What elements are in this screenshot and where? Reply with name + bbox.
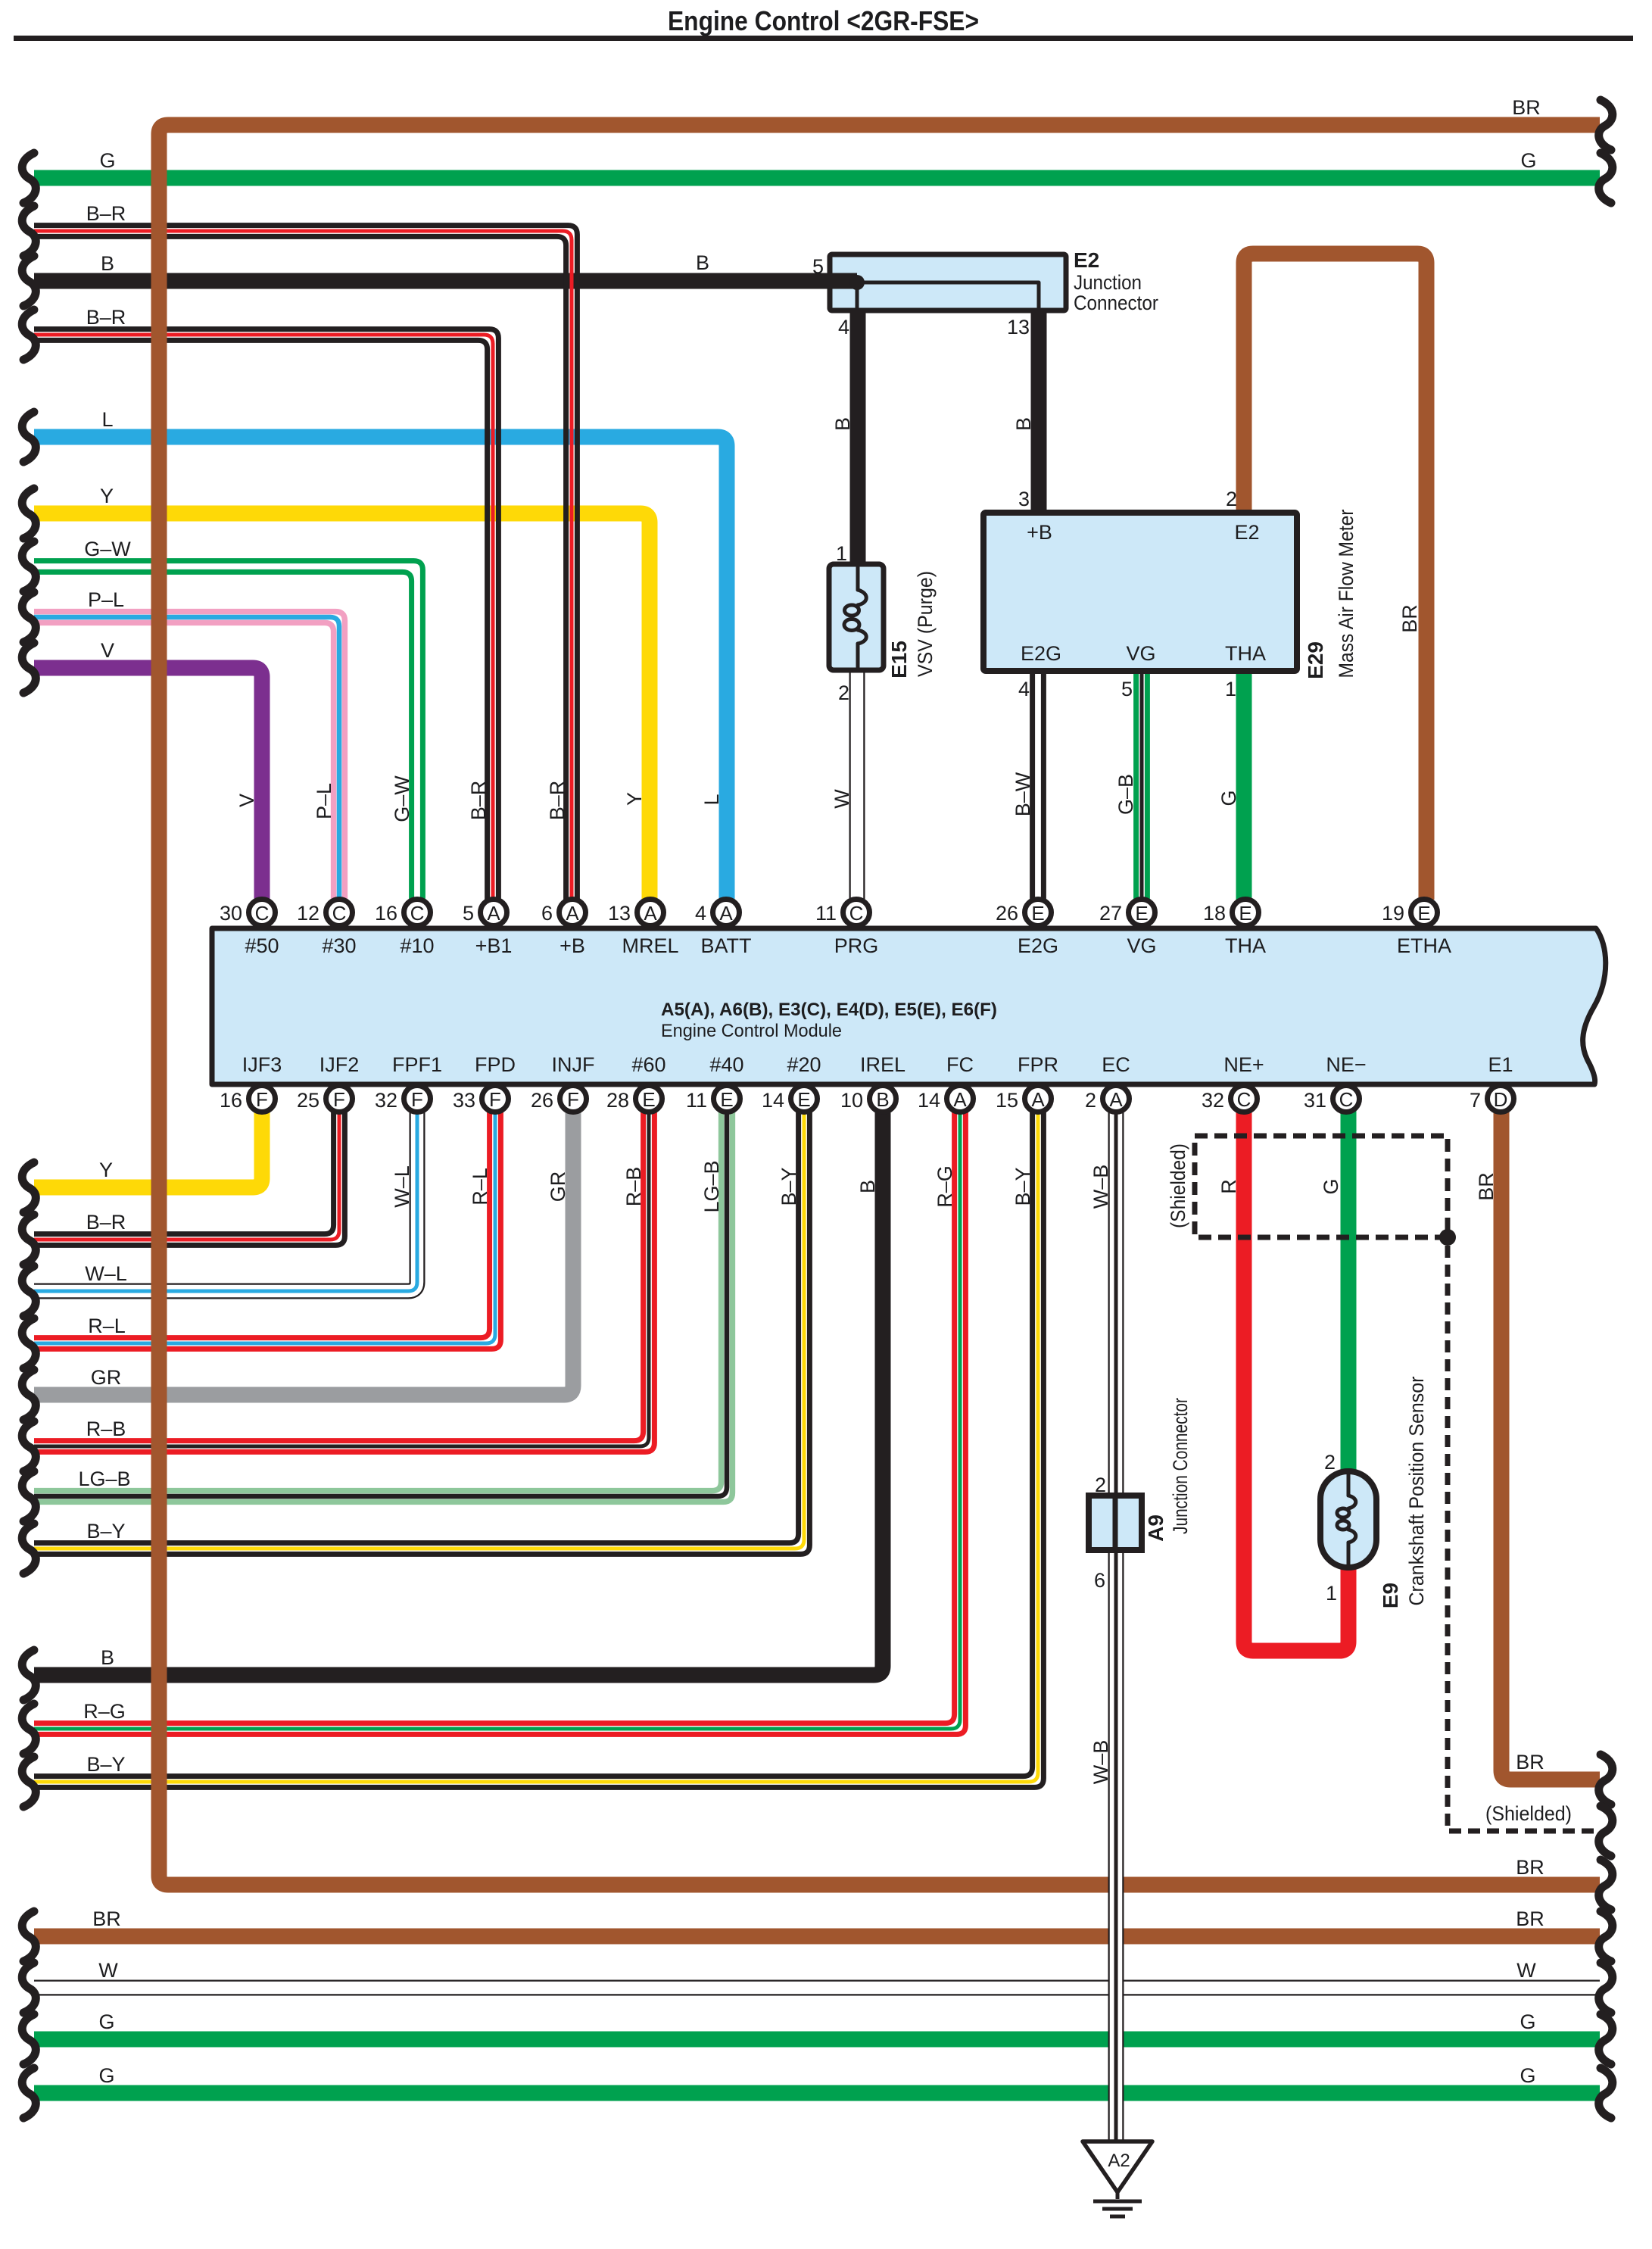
svg-text:L: L [700, 794, 723, 805]
svg-text:+B: +B [559, 934, 585, 957]
svg-text:5: 5 [463, 902, 474, 925]
ECM bottom pin 2(A) EC [1085, 1053, 1130, 1112]
svg-text:W: W [1516, 1959, 1536, 1982]
svg-text:11: 11 [686, 1089, 707, 1112]
svg-text:W–B: W–B [1089, 1165, 1112, 1209]
svg-text:31: 31 [1304, 1089, 1326, 1112]
ECM top pin 13(A) MREL [608, 900, 679, 958]
svg-text:A: A [487, 902, 500, 925]
svg-text:#30: #30 [322, 934, 356, 957]
svg-text:13: 13 [1007, 316, 1030, 338]
svg-text:R–L: R–L [469, 1168, 491, 1206]
svg-text:BR: BR [1516, 1907, 1544, 1930]
svg-text:B–Y: B–Y [778, 1167, 800, 1206]
rotated wire labels below ECM [391, 1160, 1498, 1784]
label B on wire to E2 [696, 251, 709, 274]
svg-text:5: 5 [812, 255, 824, 278]
svg-text:A9: A9 [1144, 1514, 1167, 1542]
wire B (to E2 junction connector pin 5) [34, 273, 833, 289]
junction connector E2 (box) [830, 254, 1066, 310]
svg-text:Engine Control Module: Engine Control Module [661, 1021, 842, 1041]
svg-text:V: V [101, 639, 114, 662]
svg-text:C: C [1339, 1088, 1354, 1111]
svg-text:E: E [1031, 902, 1044, 925]
MAF terminal names [1021, 521, 1266, 665]
ECM bottom pin 26(F) INJF [531, 1053, 595, 1112]
svg-text:1: 1 [1225, 678, 1236, 700]
ECM name text [661, 1000, 997, 1041]
title rule [14, 36, 1633, 41]
svg-text:B–R: B–R [86, 202, 126, 225]
wire G (MAF THA to ECM THA) [1236, 668, 1252, 900]
wire GR (to ECM INJF) [34, 1109, 573, 1395]
wire L (to ECM BATT) [34, 437, 727, 900]
ECM bottom pin 7(D) E1 [1470, 1053, 1514, 1112]
svg-text:R–B: R–B [86, 1418, 126, 1440]
svg-text:#10: #10 [400, 934, 434, 957]
svg-text:C: C [1237, 1088, 1251, 1111]
svg-text:2: 2 [838, 682, 849, 704]
ECM bottom pin 10(B) IREL [840, 1053, 905, 1112]
svg-text:Junction Connector: Junction Connector [1169, 1398, 1192, 1534]
svg-text:6: 6 [1094, 1569, 1105, 1592]
svg-text:B–R: B–R [467, 781, 490, 821]
ECM bottom pin 32(C) NE+ [1202, 1053, 1264, 1112]
E9 labels [1379, 1376, 1428, 1608]
svg-text:B: B [101, 252, 114, 275]
E15 labels [887, 571, 937, 678]
ECM bottom pin 11(E) #40 [686, 1053, 744, 1112]
svg-text:R–B: R–B [622, 1167, 645, 1207]
wire BR main (top, left vertical, bottom run to right) [159, 125, 1600, 1885]
crankshaft position sensor E9 (body) [1320, 1471, 1376, 1567]
wire B-R (to ECM IJF2) [34, 1109, 344, 1245]
svg-text:VG: VG [1126, 642, 1155, 665]
svg-text:G: G [1520, 2010, 1535, 2033]
ECM bottom pin 16(F) IJF3 [220, 1053, 282, 1112]
svg-text:BR: BR [1512, 96, 1541, 119]
ECM top pin 27(E) VG [1099, 900, 1157, 958]
svg-text:E: E [1239, 902, 1251, 925]
svg-text:C: C [332, 902, 347, 925]
svg-text:B–R: B–R [546, 781, 569, 821]
svg-text:A2: A2 [1108, 2151, 1130, 2171]
svg-text:B–W: B–W [1011, 772, 1034, 816]
svg-text:Engine Control <2GR-FSE>: Engine Control <2GR-FSE> [668, 5, 979, 36]
svg-text:VG: VG [1127, 934, 1156, 957]
svg-text:IJF3: IJF3 [242, 1053, 282, 1076]
svg-text:FPD: FPD [475, 1053, 516, 1076]
ECM bottom pin 14(A) FC [918, 1053, 974, 1112]
svg-text:B–Y: B–Y [86, 1753, 125, 1776]
svg-text:BR: BR [1516, 1856, 1544, 1879]
svg-text:G: G [1520, 2064, 1535, 2087]
A9 junction connector labels [1094, 1398, 1192, 1592]
svg-text:F: F [567, 1088, 579, 1111]
ECM top pin 16(C) #10 [375, 900, 435, 958]
svg-text:R–L: R–L [88, 1315, 126, 1337]
svg-text:A: A [719, 902, 733, 925]
svg-text:14: 14 [918, 1089, 940, 1112]
svg-text:33: 33 [453, 1089, 475, 1112]
svg-text:16: 16 [220, 1089, 242, 1112]
wire Y (to ECM MREL) [34, 513, 650, 900]
wire G (bottom full width 2) [34, 2085, 1600, 2101]
svg-text:ETHA: ETHA [1397, 934, 1451, 957]
svg-text:Y: Y [623, 792, 646, 806]
svg-text:P–L: P–L [88, 588, 124, 611]
svg-text:28: 28 [606, 1089, 629, 1112]
left wire labels [78, 149, 131, 2087]
ECM top pin 19(E) ETHA [1382, 900, 1451, 958]
svg-text:F: F [333, 1088, 345, 1111]
svg-text:B–Y: B–Y [86, 1520, 125, 1542]
ECM bottom pin 32(F) FPF1 [375, 1053, 442, 1112]
svg-text:W: W [98, 1959, 118, 1982]
svg-text:R–G: R–G [934, 1165, 956, 1208]
shielded labels [1167, 1143, 1572, 1825]
svg-text:E: E [1135, 902, 1148, 925]
svg-text:C: C [849, 902, 864, 925]
svg-text:B–Y: B–Y [1011, 1167, 1034, 1206]
mass air flow meter E29 box [983, 513, 1297, 671]
svg-text:V: V [235, 794, 258, 807]
svg-text:FPF1: FPF1 [392, 1053, 442, 1076]
svg-text:IJF2: IJF2 [319, 1053, 360, 1076]
svg-text:A: A [953, 1088, 967, 1111]
svg-text:VSV (Purge): VSV (Purge) [914, 571, 937, 677]
wire B-Y (to ECM #20) [34, 1109, 809, 1554]
svg-text:+B: +B [1027, 521, 1052, 544]
ECM bottom pin 25(F) IJF2 [297, 1053, 359, 1112]
svg-text:MREL: MREL [622, 934, 678, 957]
svg-text:E15: E15 [887, 641, 911, 678]
svg-text:A5(A), A6(B), E3(C), E4(D), E5: A5(A), A6(B), E3(C), E4(D), E5(E), E6(F) [661, 1000, 997, 1020]
svg-text:BR: BR [1475, 1172, 1498, 1201]
ECM bottom pin 31(C) NE− [1304, 1053, 1367, 1112]
E9 coil symbol [1337, 1474, 1356, 1564]
svg-text:PRG: PRG [834, 934, 879, 957]
svg-text:FPR: FPR [1018, 1053, 1058, 1076]
svg-text:2: 2 [1324, 1451, 1336, 1474]
wire BR (ECM E1 to right) [1501, 1109, 1600, 1780]
wire G-W (to ECM #10) [34, 561, 422, 900]
wire G (top full width) [34, 170, 1600, 186]
wire B-R (to ECM +B1) [34, 329, 498, 900]
rotated wire labels above ECM [235, 417, 1421, 822]
svg-text:4: 4 [838, 316, 849, 338]
svg-text:P–L: P–L [313, 783, 335, 819]
svg-text:E2G: E2G [1021, 642, 1061, 665]
svg-text:L: L [101, 408, 113, 431]
E29 labels [1304, 509, 1357, 678]
MAF pin numbers [1018, 488, 1237, 700]
wire B-W (MAF E2G to ECM E2G) [1033, 668, 1044, 900]
VSV pin numbers [836, 542, 849, 704]
svg-text:(Shielded): (Shielded) [1167, 1143, 1189, 1228]
ECM top pin 26(E) E2G [996, 900, 1058, 958]
shielded cable dashed box (NE+/NE-) [1195, 1136, 1448, 1237]
wire G (bottom full width 1) [34, 2032, 1600, 2048]
svg-text:B: B [876, 1088, 889, 1111]
svg-text:E: E [720, 1088, 733, 1111]
svg-text:LG–B: LG–B [700, 1160, 723, 1212]
svg-text:A: A [1109, 1088, 1123, 1111]
svg-text:7: 7 [1470, 1089, 1481, 1112]
svg-text:G: G [99, 149, 115, 172]
svg-text:3: 3 [1018, 488, 1030, 510]
svg-text:13: 13 [608, 902, 631, 925]
svg-text:E29: E29 [1304, 641, 1327, 679]
svg-text:Crankshaft Position Sensor: Crankshaft Position Sensor [1405, 1376, 1428, 1605]
svg-text:B: B [856, 1180, 879, 1193]
svg-text:W–L: W–L [391, 1165, 413, 1208]
svg-text:#60: #60 [631, 1053, 665, 1076]
svg-text:BR: BR [1398, 604, 1421, 633]
svg-text:E: E [642, 1088, 655, 1111]
svg-text:E2G: E2G [1018, 934, 1058, 957]
svg-text:G: G [1520, 149, 1536, 172]
svg-text:G–W: G–W [391, 775, 413, 822]
svg-text:32: 32 [375, 1089, 397, 1112]
svg-text:27: 27 [1099, 902, 1122, 925]
wire BR (MAF E2 to ECM ETHA) [1244, 254, 1426, 900]
svg-text:2: 2 [1085, 1089, 1096, 1112]
wire break squiggles right edge [1599, 100, 1613, 2118]
svg-text:14: 14 [762, 1089, 784, 1112]
svg-text:16: 16 [375, 902, 397, 925]
svg-text:A: A [566, 902, 579, 925]
svg-text:F: F [256, 1088, 268, 1111]
wire W (bottom full width) [34, 1980, 1600, 1996]
svg-text:Y: Y [99, 1159, 113, 1181]
wire G (ECM NE- to E9 pin 2) [1341, 1109, 1357, 1474]
svg-text:B: B [696, 251, 709, 274]
svg-text:(Shielded): (Shielded) [1485, 1802, 1572, 1825]
svg-text:1: 1 [836, 542, 847, 565]
svg-text:C: C [255, 902, 270, 925]
ECM top pin 30(C) #50 [220, 900, 279, 958]
svg-text:BR: BR [92, 1907, 121, 1930]
ECM bottom pin 33(F) FPD [453, 1053, 516, 1112]
shield dashed drain wire to right edge [1448, 1246, 1600, 1831]
svg-text:F: F [489, 1088, 501, 1111]
svg-text:32: 32 [1202, 1089, 1224, 1112]
wire G-B (MAF VG to ECM VG) [1136, 668, 1148, 900]
svg-text:GR: GR [547, 1171, 569, 1202]
svg-text:Y: Y [100, 485, 114, 507]
wire W (VSV pin 2 to ECM PRG) [849, 668, 865, 900]
svg-text:+B1: +B1 [475, 934, 513, 957]
wire B (E2 pin 4 to VSV pin 1) [850, 308, 866, 568]
E2 internal bus bar [828, 275, 1039, 308]
svg-text:THA: THA [1225, 642, 1266, 665]
svg-text:G: G [1320, 1178, 1342, 1194]
wire R-B (to ECM #60) [34, 1109, 654, 1452]
svg-text:#20: #20 [787, 1053, 821, 1076]
svg-text:11: 11 [815, 902, 837, 925]
shield junction dot [1439, 1229, 1456, 1246]
svg-text:15: 15 [996, 1089, 1018, 1112]
svg-text:NE−: NE− [1326, 1053, 1366, 1076]
wire B-R (to ECM +B) [34, 226, 577, 900]
wire V (to ECM #50) [34, 668, 262, 900]
wire W-B (ECM EC through A9 to ground A2) [1108, 1109, 1124, 2143]
svg-text:5: 5 [1121, 678, 1133, 700]
svg-text:BATT: BATT [701, 934, 752, 957]
wire break squiggles left edge [22, 153, 36, 2118]
svg-text:B: B [1012, 417, 1035, 431]
svg-text:#50: #50 [245, 934, 279, 957]
svg-text:E: E [797, 1088, 810, 1111]
E15 coil symbol [844, 567, 866, 667]
ECM top pin 6(A) +B [541, 900, 586, 958]
ECM bottom pin 14(E) #20 [762, 1053, 821, 1112]
svg-text:A: A [644, 902, 657, 925]
svg-text:6: 6 [541, 902, 553, 925]
svg-text:C: C [410, 902, 425, 925]
svg-text:W: W [831, 789, 853, 809]
svg-text:EC: EC [1102, 1053, 1130, 1076]
svg-text:W–B: W–B [1089, 1740, 1112, 1785]
svg-text:NE+: NE+ [1223, 1053, 1264, 1076]
svg-text:1: 1 [1326, 1582, 1337, 1605]
svg-text:G–B: G–B [1114, 774, 1137, 815]
svg-text:GR: GR [91, 1366, 122, 1389]
wire R (ECM NE+ to E9 pin 1) [1244, 1109, 1348, 1651]
svg-text:B–R: B–R [86, 1211, 126, 1234]
svg-text:E9: E9 [1379, 1583, 1402, 1608]
svg-text:F: F [411, 1088, 423, 1111]
svg-text:Junction: Junction [1074, 271, 1142, 294]
svg-text:G: G [98, 2064, 114, 2087]
svg-text:R: R [1217, 1179, 1240, 1194]
ECM top pin 18(E) THA [1203, 900, 1266, 958]
svg-text:G: G [1217, 790, 1240, 806]
wire B (to ECM IREL) [34, 1109, 883, 1675]
wire BR (lower full width) [34, 1929, 1600, 1945]
E9 pin numbers [1324, 1451, 1337, 1605]
svg-text:19: 19 [1382, 902, 1404, 925]
right wire labels [1512, 96, 1544, 2087]
svg-text:E2: E2 [1074, 248, 1099, 272]
svg-text:B: B [831, 417, 854, 431]
wire Y (to ECM IJF3) [34, 1109, 262, 1187]
svg-text:IREL: IREL [860, 1053, 905, 1076]
ECM top pin 11(C) PRG [815, 900, 878, 958]
wire R-L (to ECM FPD) [34, 1109, 500, 1349]
svg-text:4: 4 [1018, 678, 1030, 700]
svg-text:E1: E1 [1488, 1053, 1513, 1076]
svg-text:4: 4 [695, 902, 706, 925]
engine control module box (A5/A6/E3/E4/E5/E6) [212, 928, 1606, 1084]
svg-text:E2: E2 [1234, 521, 1259, 544]
wire B-Y (to ECM FPR) [34, 1109, 1043, 1787]
ECM bottom pin 28(E) #60 [606, 1053, 666, 1112]
svg-text:B–R: B–R [86, 306, 126, 329]
ground symbol A2 [1083, 2141, 1152, 2216]
svg-text:25: 25 [297, 1089, 319, 1112]
svg-text:2: 2 [1226, 488, 1237, 510]
wire R-G (to ECM FC) [34, 1109, 965, 1734]
svg-text:A: A [1031, 1088, 1045, 1111]
svg-text:B: B [101, 1646, 114, 1669]
wire B (E2 pin 13 to MAF pin 3 +B) [1031, 308, 1047, 517]
svg-text:THA: THA [1225, 934, 1266, 957]
svg-text:G–W: G–W [84, 538, 131, 560]
svg-text:#40: #40 [709, 1053, 743, 1076]
svg-text:18: 18 [1203, 902, 1226, 925]
ECM top pin 4(A) BATT [695, 900, 752, 958]
ECM top pin 12(C) #30 [297, 900, 357, 958]
title: Engine Control <2GR-FSE> [668, 5, 979, 36]
ECM bottom pin 15(A) FPR [996, 1053, 1058, 1112]
ECM top pin 5(A) +B1 [463, 900, 512, 958]
junction connector A9 box [1089, 1496, 1142, 1550]
wire LG-B (to ECM #40) [34, 1109, 732, 1502]
VSV (Purge) E15 box [829, 564, 884, 670]
svg-text:Mass Air Flow Meter: Mass Air Flow Meter [1335, 509, 1357, 678]
E2 junction connector label [1074, 248, 1158, 314]
svg-text:LG–B: LG–B [78, 1468, 130, 1490]
svg-text:26: 26 [531, 1089, 553, 1112]
E2 pin number labels [812, 255, 1030, 338]
svg-text:12: 12 [297, 902, 319, 925]
svg-text:D: D [1494, 1088, 1508, 1111]
svg-text:W–L: W–L [85, 1262, 127, 1285]
svg-text:INJF: INJF [552, 1053, 595, 1076]
wire P-L (to ECM #30) [34, 612, 344, 900]
svg-text:26: 26 [996, 902, 1018, 925]
svg-text:G: G [98, 2010, 114, 2033]
svg-text:Connector: Connector [1074, 292, 1158, 314]
svg-text:E: E [1417, 902, 1430, 925]
svg-text:FC: FC [946, 1053, 974, 1076]
svg-text:BR: BR [1516, 1751, 1544, 1773]
svg-text:R–G: R–G [83, 1700, 126, 1723]
svg-text:30: 30 [220, 902, 242, 925]
svg-text:10: 10 [840, 1089, 863, 1112]
svg-text:2: 2 [1095, 1474, 1106, 1496]
wire W-L (to ECM FPF1) [34, 1109, 417, 1291]
